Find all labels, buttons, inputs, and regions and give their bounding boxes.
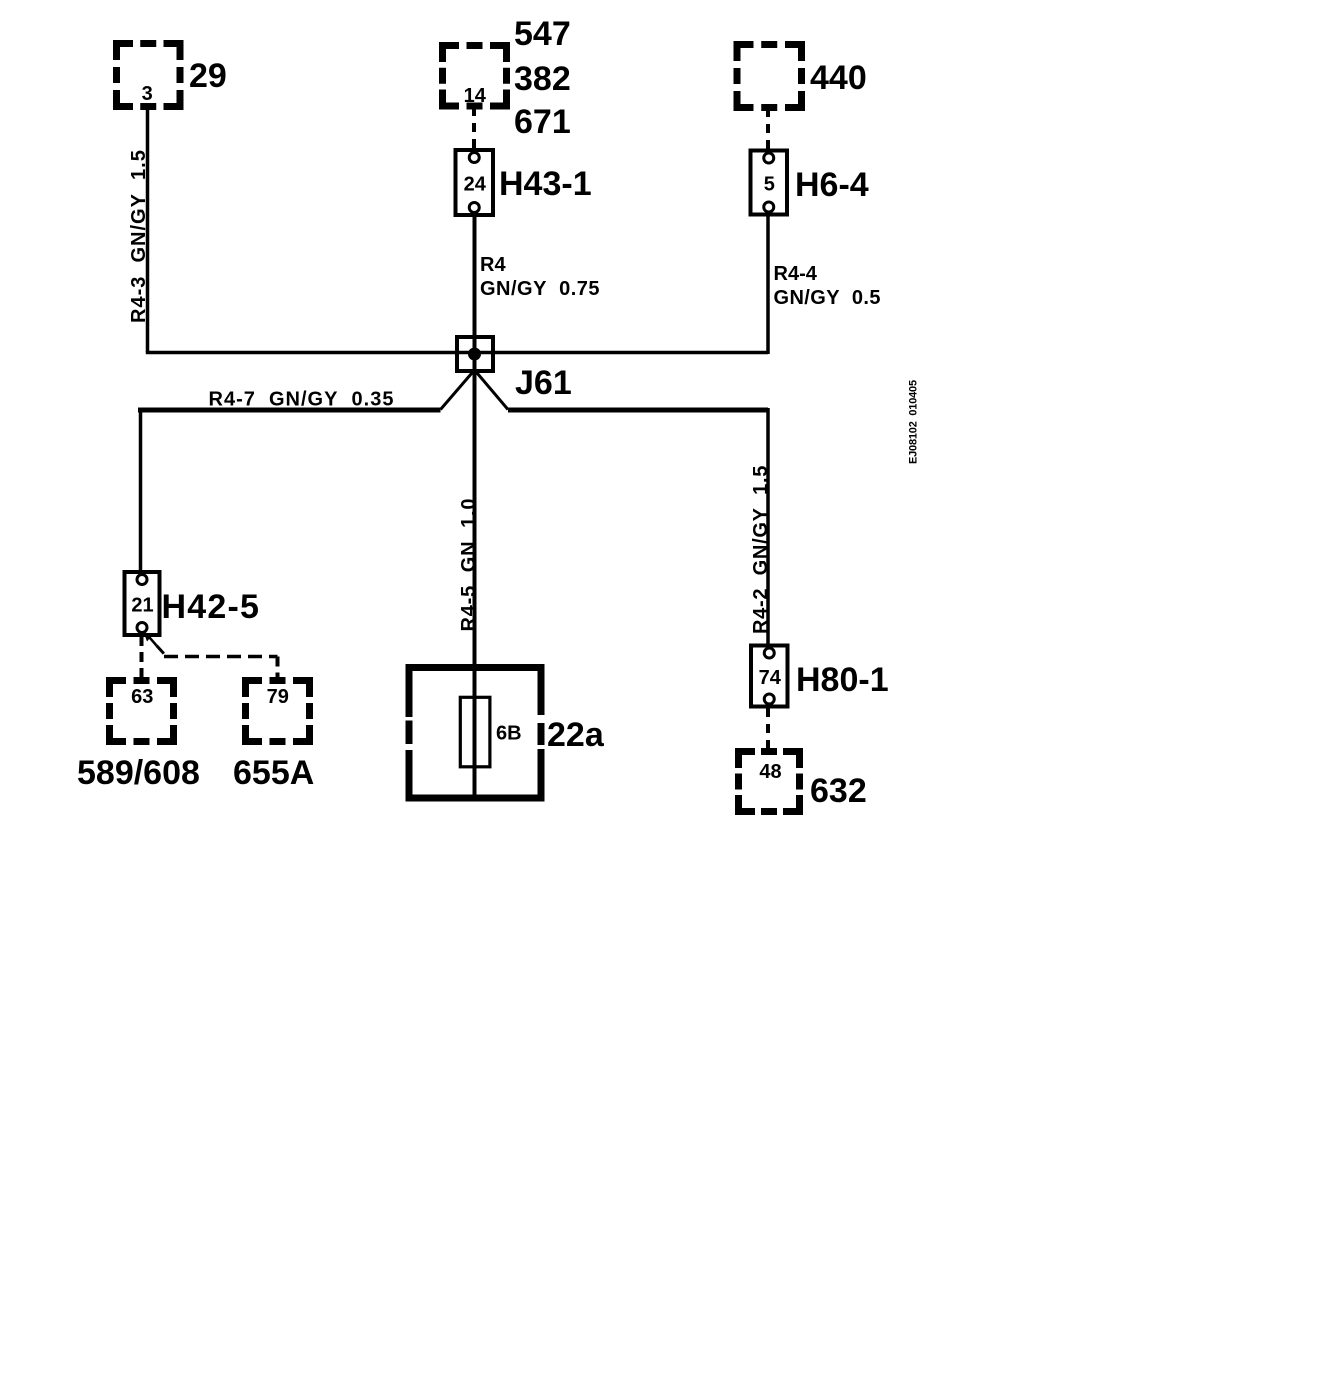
svg-text:79: 79 <box>267 686 289 708</box>
svg-text:EJ08102 010405: EJ08102 010405 <box>908 380 920 464</box>
svg-text:H6-4: H6-4 <box>795 166 869 204</box>
svg-text:6B: 6B <box>496 723 522 745</box>
svg-text:29: 29 <box>189 57 227 95</box>
svg-text:24: 24 <box>464 174 487 196</box>
svg-text:48: 48 <box>759 761 781 783</box>
svg-text:GN/GY 0.5: GN/GY 0.5 <box>774 287 881 309</box>
svg-text:H43-1: H43-1 <box>499 165 592 203</box>
svg-text:63: 63 <box>131 686 153 708</box>
svg-text:R4-2 GN/GY 1.5: R4-2 GN/GY 1.5 <box>750 465 772 634</box>
svg-text:14: 14 <box>464 85 487 107</box>
svg-text:547: 547 <box>514 15 571 53</box>
svg-text:22a: 22a <box>547 716 605 754</box>
svg-text:R4: R4 <box>480 254 506 276</box>
svg-text:655A: 655A <box>233 754 314 792</box>
svg-text:H42-5: H42-5 <box>162 588 261 626</box>
svg-text:R4-3 GN/GY 1.5: R4-3 GN/GY 1.5 <box>128 149 150 323</box>
svg-text:74: 74 <box>759 667 782 689</box>
svg-text:R4-4: R4-4 <box>774 263 818 285</box>
svg-text:5: 5 <box>764 174 775 196</box>
svg-text:440: 440 <box>810 59 867 97</box>
svg-text:J61: J61 <box>515 364 572 402</box>
svg-text:382: 382 <box>514 60 571 98</box>
svg-text:589/608: 589/608 <box>77 754 200 792</box>
svg-text:671: 671 <box>514 103 571 141</box>
svg-text:H80-1: H80-1 <box>796 661 889 699</box>
svg-text:632: 632 <box>810 772 867 810</box>
svg-text:R4-5 GN 1.0: R4-5 GN 1.0 <box>458 498 480 632</box>
svg-text:GN/GY 0.75: GN/GY 0.75 <box>480 278 600 300</box>
svg-text:3: 3 <box>142 83 153 105</box>
svg-text:R4-7 GN/GY 0.35: R4-7 GN/GY 0.35 <box>209 389 395 411</box>
svg-text:21: 21 <box>131 595 153 617</box>
